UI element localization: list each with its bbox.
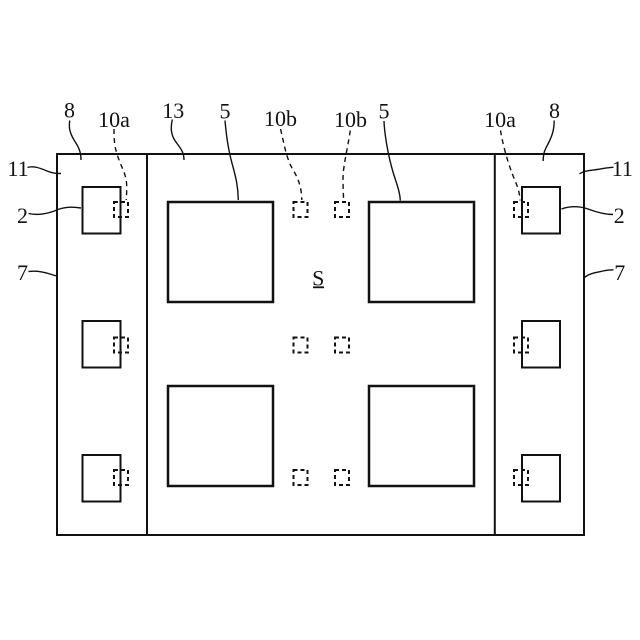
svg-text:11: 11 bbox=[612, 156, 633, 181]
dashed leader line for label 10a (top left) bbox=[114, 129, 127, 200]
dashed mark 10a (right strip, row 3) bbox=[514, 470, 528, 485]
dashed mark 10b (center col A, row 1) bbox=[294, 202, 308, 217]
svg-text:7: 7 bbox=[17, 260, 28, 285]
svg-text:11: 11 bbox=[7, 156, 28, 181]
electrode pad 2 (left strip, row 1) bbox=[83, 187, 121, 234]
dashed mark 10a (left strip, row 2) bbox=[114, 338, 128, 353]
svg-text:8: 8 bbox=[64, 98, 75, 123]
svg-text:10a: 10a bbox=[484, 107, 516, 132]
element region 5 (bottom-right large square) bbox=[369, 386, 474, 486]
svg-text:10a: 10a bbox=[98, 107, 130, 132]
svg-text:5: 5 bbox=[220, 99, 231, 124]
dashed leader line for label 10a (right) bbox=[501, 131, 521, 201]
svg-text:8: 8 bbox=[549, 98, 560, 123]
leader line for label 7 (left) bbox=[29, 271, 58, 276]
leader line for label 13 bbox=[171, 120, 184, 161]
left frame divider line (edge of region 8) bbox=[146, 153, 148, 536]
electrode pad 2 (right strip, row 2) bbox=[522, 321, 560, 368]
svg-text:10b: 10b bbox=[264, 106, 297, 131]
element region 5 (bottom-left large square) bbox=[168, 386, 273, 486]
svg-text:10b: 10b bbox=[334, 107, 367, 132]
element region 5 (top-right large square) bbox=[369, 202, 474, 302]
electrode pad 2 (right strip, row 1) bbox=[522, 187, 560, 234]
dashed mark 10b (center col B, row 3) bbox=[335, 470, 349, 485]
dashed mark 10b (center col A, row 2) bbox=[294, 338, 308, 353]
electrode pad 2 (left strip, row 2) bbox=[83, 321, 121, 368]
element region 5 (top-left large square) bbox=[168, 202, 273, 302]
svg-text:13: 13 bbox=[162, 98, 184, 123]
right frame divider line (edge of region 8) bbox=[494, 153, 496, 536]
electrode pad 2 (left strip, row 3) bbox=[83, 455, 121, 502]
dashed mark 10b (center col A, row 3) bbox=[294, 470, 308, 485]
dashed mark 10a (left strip, row 3) bbox=[114, 470, 128, 485]
leader line for label 11 (left) bbox=[28, 167, 62, 174]
svg-text:2: 2 bbox=[614, 203, 625, 228]
dashed leader line for label 10b (left) bbox=[281, 129, 302, 200]
svg-text:7: 7 bbox=[614, 260, 625, 285]
outer package body 11 bbox=[57, 154, 584, 535]
dashed mark 10b (center col B, row 1) bbox=[335, 202, 349, 217]
dashed mark 10b (center col B, row 2) bbox=[335, 338, 349, 353]
leader line for label 2 (left) bbox=[29, 207, 82, 214]
leader line for label 2 (right) bbox=[562, 207, 614, 215]
leader line for label 7 (right) bbox=[585, 270, 614, 278]
dashed mark 10a (left strip, row 1) bbox=[114, 202, 128, 217]
leader line for label 8 (top right) bbox=[543, 121, 554, 162]
underline of label S bbox=[313, 286, 324, 288]
dashed mark 10a (right strip, row 2) bbox=[514, 338, 528, 353]
electrode pad 2 (right strip, row 3) bbox=[522, 455, 560, 502]
svg-text:2: 2 bbox=[17, 203, 28, 228]
dashed leader line for label 10b (right) bbox=[343, 131, 350, 201]
svg-text:5: 5 bbox=[379, 99, 390, 124]
leader line for label 5 (right) bbox=[384, 121, 400, 201]
leader line for label 5 (left) bbox=[225, 121, 238, 201]
leader line for label 11 (right) bbox=[580, 167, 614, 174]
leader line for label 8 (top left) bbox=[69, 121, 81, 161]
dashed mark 10a (right strip, row 1) bbox=[514, 202, 528, 217]
